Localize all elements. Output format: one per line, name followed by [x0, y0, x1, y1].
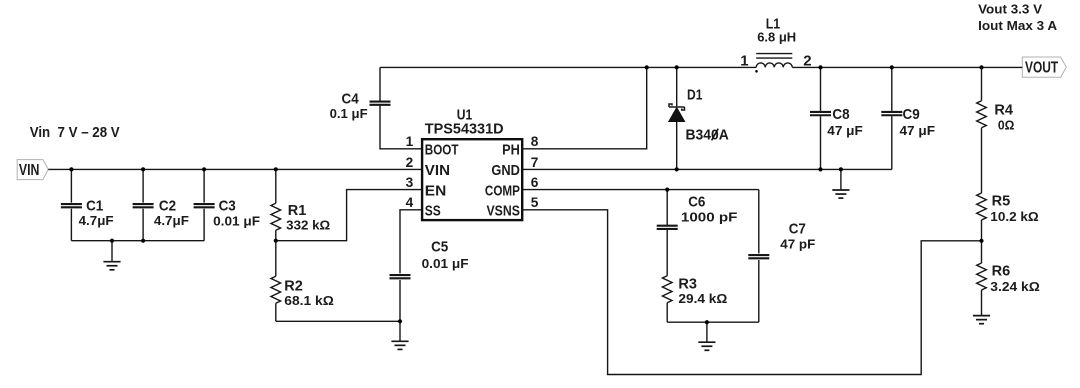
port flag VIN — [17, 160, 48, 180]
wire GND rail (pin7 to C9) — [522, 168, 892, 170]
svg-text:Vout 3.3 V: Vout 3.3 V — [978, 3, 1043, 17]
resistor R5 — [977, 193, 1039, 264]
svg-text:VOUT: VOUT — [1025, 60, 1059, 77]
svg-text:R4: R4 — [994, 101, 1013, 118]
pin 5 VSNS — [487, 195, 539, 219]
svg-text:R1: R1 — [288, 202, 307, 219]
resistor R2 — [271, 241, 334, 322]
svg-text:BOOT: BOOT — [425, 142, 459, 159]
svg-text:68.1 kΩ: 68.1 kΩ — [284, 293, 334, 308]
capacitor C3 — [194, 169, 261, 240]
pin 1 BOOT — [406, 134, 459, 158]
svg-text:C8: C8 — [832, 106, 849, 123]
ground below C5 — [391, 321, 408, 349]
svg-text:PH: PH — [502, 142, 520, 159]
svg-text:Iout Max 3 A: Iout Max 3 A — [978, 19, 1057, 33]
svg-text:SS: SS — [425, 203, 441, 220]
svg-text:COMP: COMP — [485, 182, 520, 199]
svg-text:0.1 μF: 0.1 μF — [330, 106, 368, 121]
junction dots gnd rail — [818, 167, 822, 171]
wire R2 bottom to C5 bottom — [276, 320, 400, 322]
pin 6 COMP — [485, 175, 539, 199]
ground below R6 — [973, 316, 990, 324]
wire PH pin8 to top rail — [522, 67, 647, 148]
svg-text:29.4 kΩ: 29.4 kΩ — [678, 291, 727, 306]
svg-text:10.2 kΩ: 10.2 kΩ — [990, 209, 1039, 224]
svg-text:4.7μF: 4.7μF — [154, 213, 189, 228]
port flag VOUT — [1022, 57, 1066, 77]
ground below input caps — [103, 241, 120, 270]
svg-text:C3: C3 — [219, 197, 236, 214]
capacitor C6 — [657, 190, 738, 276]
ground below C8/C9 — [832, 169, 849, 198]
svg-text:B340A: B340A — [686, 127, 729, 144]
svg-text:6.8 μH: 6.8 μH — [757, 30, 796, 45]
svg-text:7: 7 — [531, 155, 539, 170]
svg-text:VIN: VIN — [19, 162, 40, 179]
svg-text:2: 2 — [803, 53, 811, 70]
svg-text:C9: C9 — [903, 106, 920, 123]
svg-text:C2: C2 — [159, 197, 176, 214]
svg-text:C7: C7 — [789, 221, 806, 238]
capacitor C1 — [61, 169, 114, 240]
svg-text:D1: D1 — [687, 87, 702, 104]
svg-text:0.01 μF: 0.01 μF — [422, 256, 469, 271]
resistor R6 — [977, 263, 1040, 316]
svg-text:4.7μF: 4.7μF — [79, 213, 114, 228]
svg-text:1000 pF: 1000 pF — [681, 210, 738, 225]
wire comp network bottom — [667, 321, 759, 323]
capacitor C5 — [390, 210, 469, 321]
svg-text:3: 3 — [406, 175, 414, 190]
svg-text:C5: C5 — [431, 239, 448, 256]
inductor L1 — [740, 15, 811, 72]
resistor R1 — [271, 169, 330, 240]
svg-text:5: 5 — [531, 195, 539, 210]
pin 4 SS — [406, 195, 441, 219]
wire VSNS pin5 feedback path — [522, 210, 982, 375]
svg-text:C6: C6 — [688, 194, 705, 211]
wire VIN rail — [48, 168, 422, 170]
svg-text:1: 1 — [406, 134, 414, 149]
svg-text:47 μF: 47 μF — [900, 123, 936, 138]
IC U1 TPS54331D body — [422, 107, 522, 221]
svg-text:8: 8 — [531, 134, 539, 149]
wire COMP rail (pin6 to C7) — [522, 189, 759, 191]
svg-text:1: 1 — [740, 53, 748, 70]
wire R1/R2 junction to EN pin 3 — [276, 190, 422, 241]
svg-text:R3: R3 — [678, 275, 697, 292]
pin 8 PH — [502, 134, 539, 158]
svg-text:332 kΩ: 332 kΩ — [286, 218, 330, 233]
svg-text:2: 2 — [406, 155, 414, 170]
capacitor C9 — [881, 67, 935, 169]
wire C1-C3 bottom rail — [71, 240, 204, 242]
pin 2 VIN — [406, 155, 450, 179]
junction dots top rail — [818, 65, 822, 69]
pin 3 EN — [406, 175, 447, 199]
svg-text:47 pF: 47 pF — [780, 236, 815, 251]
svg-text:Vin 7 V – 28 V: Vin 7 V – 28 V — [30, 125, 120, 141]
resistor R3 — [662, 275, 727, 322]
pin 7 GND — [491, 155, 538, 179]
wire top rail left (BOOT/C4 to L1) — [380, 66, 756, 68]
ground below comp network — [698, 322, 715, 350]
svg-text:47 μF: 47 μF — [827, 123, 863, 138]
capacitor C7 — [748, 190, 815, 323]
svg-text:C1: C1 — [86, 197, 103, 214]
capacitor C2 — [133, 169, 189, 240]
svg-text:4: 4 — [406, 195, 414, 210]
svg-text:3.24 kΩ: 3.24 kΩ — [990, 279, 1040, 294]
capacitor C4 — [330, 67, 422, 148]
svg-text:VIN: VIN — [425, 162, 450, 179]
svg-text:TPS54331D: TPS54331D — [425, 121, 504, 138]
diode D1 B340A schottky — [669, 65, 729, 171]
svg-text:0.01 μF: 0.01 μF — [213, 213, 260, 228]
svg-text:R6: R6 — [992, 263, 1011, 280]
resistor R4 — [977, 67, 1015, 193]
capacitor C8 — [810, 67, 863, 169]
svg-text:0Ω: 0Ω — [998, 117, 1015, 132]
wire top rail right (L1 to VOUT) — [792, 66, 1022, 68]
svg-text:6: 6 — [531, 175, 539, 190]
svg-text:EN: EN — [425, 182, 447, 199]
junction dots input rail — [69, 167, 73, 171]
svg-text:GND: GND — [491, 162, 520, 179]
svg-text:R5: R5 — [992, 193, 1011, 210]
svg-text:VSNS: VSNS — [487, 203, 520, 220]
